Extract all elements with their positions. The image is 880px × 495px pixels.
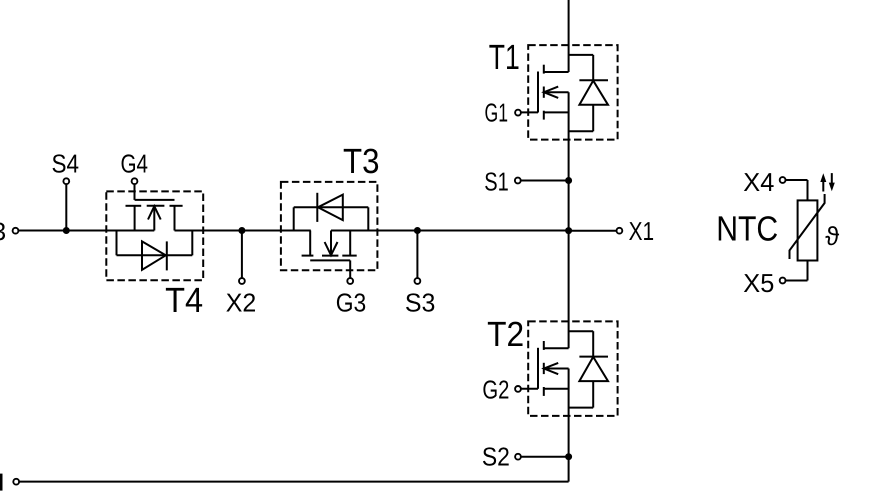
series diode of T3 xyxy=(294,193,369,231)
terminal 3 xyxy=(13,228,19,234)
anti-parallel diode of T1 xyxy=(569,55,608,131)
svg-text:G3: G3 xyxy=(336,288,367,318)
wire: T2 source down to S2 node xyxy=(568,369,570,482)
svg-text:T1: T1 xyxy=(489,38,520,77)
current arrows (up/down) at NTC xyxy=(820,173,835,191)
svg-text:S1: S1 xyxy=(484,167,509,197)
series diode of T4 xyxy=(117,231,193,271)
MOSFET T2 symbol xyxy=(521,341,568,396)
svg-text:3: 3 xyxy=(0,218,6,246)
wire: T1 source down to S1 node and X1 node xyxy=(568,92,570,348)
transistor T3 package outline (dashed) xyxy=(281,182,378,270)
terminal X4 xyxy=(780,177,786,183)
thermistor NTC body xyxy=(798,200,818,260)
svg-text:S3: S3 xyxy=(405,288,436,318)
junction: X2 node xyxy=(238,227,245,234)
junction: S4 node xyxy=(63,227,70,234)
wire: bus from T3 to X1 node xyxy=(331,230,569,232)
svg-text:G4: G4 xyxy=(120,148,148,178)
MOSFET T1 symbol xyxy=(521,65,568,120)
svg-text:T4: T4 xyxy=(165,281,203,320)
terminal G2 xyxy=(515,386,521,392)
svg-text:T3: T3 xyxy=(343,142,380,181)
terminal S1 xyxy=(515,178,521,184)
wire: X2 down from bus xyxy=(241,231,243,278)
terminal S4 xyxy=(63,178,69,184)
terminal G1 xyxy=(515,110,521,116)
wire: G3 down from T3 gate xyxy=(349,260,351,277)
label 1 (left module pin, cut off at edge) xyxy=(0,474,3,491)
svg-text:X2: X2 xyxy=(226,288,257,318)
wire: top feed into T1 drain xyxy=(568,0,570,72)
terminal X1 xyxy=(617,228,623,234)
transistor T2 package outline (dashed) xyxy=(528,321,617,416)
wire: bus from T4 to T3 xyxy=(175,230,311,232)
svg-text:NTC: NTC xyxy=(716,210,778,249)
svg-text:T2: T2 xyxy=(487,315,524,354)
terminal G4 xyxy=(132,178,138,184)
terminal S2 xyxy=(515,454,521,460)
svg-text:ϑ: ϑ xyxy=(825,221,840,251)
junction: S1 node xyxy=(565,177,572,184)
svg-text:X4: X4 xyxy=(743,167,774,197)
wire: S3 down from bus xyxy=(416,231,418,278)
wire: X4 to NTC top xyxy=(786,179,808,181)
transistor T4 package outline (dashed) xyxy=(106,191,203,280)
terminal 1 xyxy=(13,479,19,485)
transistor T1 package outline (dashed) xyxy=(528,45,617,140)
thermistor NTC diagonal stroke xyxy=(790,194,825,259)
svg-text:S2: S2 xyxy=(482,442,510,472)
wire: X1 stub xyxy=(569,230,616,232)
svg-text:G1: G1 xyxy=(485,97,509,127)
junction: S3 node xyxy=(414,227,421,234)
wire: S4 down to bus xyxy=(65,185,67,231)
junction: S2 node xyxy=(565,453,572,460)
wire: G4 down to T4 gate xyxy=(134,185,136,200)
wire: bottom rail from pin 1 to T2 source xyxy=(20,481,569,483)
terminal S3 xyxy=(415,278,421,284)
terminal X2 xyxy=(239,278,245,284)
wire: bus from pin 3 to T4 xyxy=(19,230,155,232)
svg-text:X1: X1 xyxy=(629,216,655,246)
MOSFET T4 symbol xyxy=(126,200,183,231)
svg-text:G2: G2 xyxy=(482,375,509,405)
terminal G3 xyxy=(347,278,353,284)
terminal X5 xyxy=(780,278,786,284)
anti-parallel diode of T2 xyxy=(569,331,608,407)
svg-text:X5: X5 xyxy=(743,268,774,298)
wire: S2 stub xyxy=(521,456,568,458)
wire: S1 stub xyxy=(521,180,569,182)
junction: X1 node xyxy=(565,227,572,234)
wire: X5 to NTC bottom xyxy=(786,280,808,282)
MOSFET T3 symbol xyxy=(302,231,357,261)
svg-text:S4: S4 xyxy=(52,148,80,178)
